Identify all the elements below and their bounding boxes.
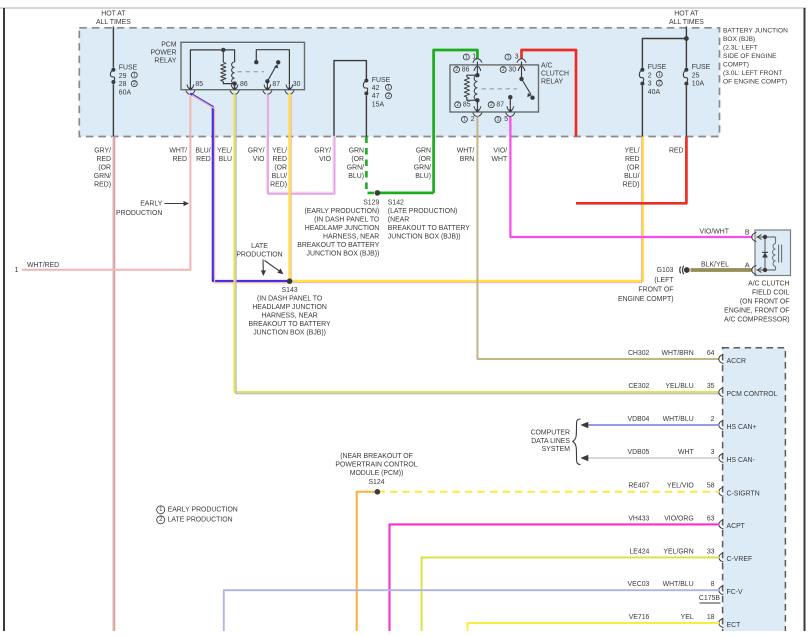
- svg-text:86: 86: [462, 66, 470, 73]
- EARLY PRODUCTION note with arrow: [116, 200, 189, 217]
- svg-text:ENGINE, FRONT OF: ENGINE, FRONT OF: [724, 308, 789, 315]
- svg-text:WHT: WHT: [678, 449, 694, 456]
- svg-text:BLU): BLU): [415, 173, 431, 180]
- svg-text:ACPT: ACPT: [727, 523, 746, 530]
- svg-text:LATE: LATE: [251, 243, 268, 250]
- connector arc at PCM pin 3: [719, 453, 724, 462]
- svg-text:58: 58: [707, 483, 715, 490]
- pin arrow 85: [187, 82, 194, 90]
- VIO/WHT label: [700, 229, 730, 236]
- svg-text:BLU): BLU): [348, 173, 364, 180]
- svg-text:VH433: VH433: [628, 515, 649, 522]
- fuse 2/3 40A: [639, 68, 644, 86]
- svg-text:HOT AT: HOT AT: [101, 11, 126, 18]
- node: A/C relay coil top: [475, 73, 479, 77]
- connector arc at PCM pin 2: [719, 420, 724, 429]
- wire HS CAN+ with arrow: [580, 422, 719, 429]
- pin arrow 30: [286, 82, 293, 90]
- svg-text:RED: RED: [172, 156, 187, 163]
- svg-text:2: 2: [711, 416, 715, 423]
- wire: GRY/VIO return into BJB up to fuse 42/47: [334, 61, 366, 137]
- svg-text:FC-V: FC-V: [727, 589, 743, 596]
- svg-text:(OR: (OR: [627, 165, 640, 172]
- svg-text:RED: RED: [625, 156, 640, 163]
- wire YEL/RED pin 30 down to S143: [289, 93, 291, 281]
- svg-text:YEL/: YEL/: [625, 148, 640, 155]
- connector arc at PCM pin 63: [719, 520, 724, 529]
- svg-text:15A: 15A: [372, 101, 385, 108]
- svg-text:GRY/: GRY/: [248, 148, 265, 155]
- svg-text:ACCR: ACCR: [727, 358, 747, 365]
- wire: junction branch to fuse 2/3: [642, 39, 686, 68]
- wire label BLU/RED: [195, 148, 210, 164]
- svg-text:RED): RED): [94, 182, 111, 189]
- svg-text:GRN: GRN: [416, 148, 431, 155]
- connector arcs under PCM power relay pins: [186, 90, 294, 94]
- svg-text:63: 63: [707, 515, 715, 522]
- node: A/C switch pivot: [519, 77, 523, 81]
- svg-text:JUNCTION BOX (BJB)): JUNCTION BOX (BJB)): [388, 233, 461, 240]
- A/C clutch field coil box: [755, 230, 791, 276]
- connector arc at PCM pin 35: [719, 388, 724, 397]
- svg-text:18: 18: [707, 614, 715, 621]
- svg-text:1: 1: [465, 54, 468, 60]
- svg-text:BLU/: BLU/: [195, 148, 210, 155]
- svg-text:87: 87: [272, 81, 280, 88]
- wire: relay pin 85 riser to coil top: [190, 50, 234, 84]
- svg-text:A/C CLUTCH: A/C CLUTCH: [748, 281, 789, 288]
- svg-text:2: 2: [648, 72, 652, 79]
- relay box: PCM POWER RELAY: [181, 42, 305, 89]
- A/C CLUTCH RELAY label: [541, 62, 569, 85]
- svg-text:GRY/: GRY/: [94, 148, 111, 155]
- wire label GRY/RED (OR GRN/RED): [94, 148, 111, 189]
- svg-text:(IN DASH PANEL TO: (IN DASH PANEL TO: [314, 216, 380, 223]
- computer data lines brace: [573, 419, 581, 465]
- svg-text:85: 85: [463, 101, 471, 108]
- node S129 splice: [375, 190, 381, 196]
- pin C-SIGRTN label row (RE407 YEL/VIO 58): [628, 483, 714, 490]
- svg-text:2: 2: [502, 67, 505, 73]
- svg-text:JUNCTION BOX (BJB)): JUNCTION BOX (BJB)): [307, 250, 380, 257]
- svg-text:86: 86: [240, 81, 248, 88]
- svg-text:LE424: LE424: [629, 548, 649, 555]
- pin label (1)5: [495, 116, 508, 123]
- field coil diode: [762, 252, 768, 257]
- svg-text:3: 3: [648, 81, 652, 88]
- svg-text:S143: S143: [282, 287, 298, 294]
- pin arrow 86: [231, 82, 238, 90]
- PCM module dashed box: [723, 348, 786, 636]
- wire: RED into relay pin 3: [522, 50, 577, 137]
- svg-text:GRN/: GRN/: [94, 173, 111, 180]
- svg-text:RELAY: RELAY: [154, 58, 176, 65]
- wire WHT/RED (early production): [22, 94, 191, 270]
- svg-text:BLU/: BLU/: [272, 173, 287, 180]
- svg-text:1: 1: [15, 267, 19, 274]
- mechanical link dashed line (A/C relay): [482, 88, 518, 90]
- svg-text:RED): RED): [623, 182, 640, 189]
- svg-text:COMPT): COMPT): [723, 62, 749, 69]
- svg-text:2: 2: [387, 93, 390, 99]
- G103 label: [618, 267, 674, 303]
- wire: GRN into relay pin 1: [434, 50, 478, 193]
- svg-text:3: 3: [515, 54, 519, 61]
- svg-text:(OR: (OR: [98, 165, 111, 172]
- battery junction box (BJB) dashed enclosure: [79, 28, 719, 137]
- svg-text:C175B: C175B: [699, 595, 720, 602]
- svg-text:BRN: BRN: [460, 156, 475, 163]
- wire GRY/VIO U-path pin 87 to BJB return: [267, 93, 335, 194]
- pin label (2)85: [455, 101, 471, 108]
- svg-text:SYSTEM: SYSTEM: [542, 446, 571, 453]
- wire: junction down to resistor: [222, 50, 224, 62]
- connector arc above pin 3: [517, 59, 526, 67]
- wire label WHT/BRN: [457, 148, 475, 164]
- svg-text:GRN: GRN: [349, 148, 364, 155]
- wire HS CAN- with arrow: [580, 455, 719, 462]
- svg-text:CH302: CH302: [628, 350, 650, 357]
- pin name ACPT: [727, 523, 746, 530]
- svg-text:RE407: RE407: [628, 483, 649, 490]
- svg-text:VIO: VIO: [319, 156, 332, 163]
- node: switch fixed contact: [254, 60, 258, 64]
- switch armature arm (A/C relay): [522, 79, 532, 97]
- legend (1) EARLY PRODUCTION (2) LATE PRODUCTION: [157, 506, 238, 524]
- connector arc at PCM pin 58: [719, 487, 724, 496]
- svg-text:25: 25: [692, 72, 700, 79]
- fuse 25 10A: [683, 68, 688, 86]
- svg-text:RED: RED: [669, 148, 684, 155]
- pin number 87: [272, 81, 280, 88]
- S143 splice label: [249, 287, 331, 337]
- wire BLU/RED (late production): [190, 93, 290, 282]
- wire: fuse 2/3 output inside BJB: [641, 86, 643, 137]
- svg-text:YEL/BLU: YEL/BLU: [665, 383, 693, 390]
- svg-text:64: 64: [707, 350, 715, 357]
- svg-text:PRODUCTION: PRODUCTION: [116, 210, 162, 217]
- node S124 splice: [375, 489, 381, 495]
- svg-text:G103: G103: [657, 267, 674, 274]
- svg-text:47: 47: [372, 93, 380, 100]
- wire VIO/ORG ACPT: [390, 524, 720, 631]
- connector arc at PCM pin 64: [719, 354, 724, 363]
- pin label (2)87: [488, 101, 504, 108]
- svg-text:28: 28: [119, 81, 127, 88]
- svg-text:1: 1: [463, 117, 466, 123]
- pin letter A: [745, 263, 750, 270]
- svg-text:GRY/: GRY/: [314, 148, 331, 155]
- BLK/YEL label: [701, 262, 729, 269]
- pin name ECT: [727, 622, 742, 629]
- svg-text:GRN/: GRN/: [414, 165, 431, 172]
- wire: fuse 42/47 output inside BJB: [365, 96, 367, 137]
- svg-text:ECT: ECT: [727, 622, 742, 629]
- svg-text:YEL/GRN: YEL/GRN: [663, 548, 693, 555]
- svg-text:BLU: BLU: [219, 156, 232, 163]
- wire GRN solid to S142 riser: [377, 192, 433, 195]
- svg-text:FRONT OF: FRONT OF: [638, 286, 673, 293]
- node: feed junction: [684, 36, 689, 41]
- wire label GRN (OR GRN/BLU) (early): [347, 148, 364, 181]
- wire YEL/VIO dashed C-SIGRTN: [377, 491, 719, 493]
- node: field coil pin A junction: [763, 268, 767, 272]
- svg-text:VDB04: VDB04: [628, 416, 650, 423]
- svg-text:VIO/: VIO/: [493, 148, 507, 155]
- svg-text:VE716: VE716: [629, 614, 650, 621]
- svg-text:29: 29: [119, 73, 127, 80]
- svg-text:(2.3L: LEFT: (2.3L: LEFT: [723, 45, 758, 52]
- wire label GRY/VIO (return): [314, 148, 331, 164]
- pin PCM CONTROL label row (CE302 YEL/BLU 35): [628, 383, 714, 390]
- S142 splice label: [388, 199, 470, 240]
- connector arc at PCM pin 8: [719, 586, 724, 595]
- svg-text:1: 1: [497, 117, 500, 123]
- pin arrow 87: [264, 82, 271, 90]
- pin name C-SIGRTN: [727, 491, 760, 498]
- svg-text:2: 2: [490, 102, 493, 108]
- svg-text:YEL/: YEL/: [217, 148, 232, 155]
- fuse 25 label: [692, 64, 711, 88]
- fuse 42/47 15A: [363, 79, 368, 96]
- field coil pin chevrons: [758, 235, 762, 273]
- wire GRY/RED vertical to page bottom: [113, 137, 115, 632]
- C175B connector label: [699, 595, 721, 603]
- svg-text:JUNCTION BOX (BJB)): JUNCTION BOX (BJB)): [253, 330, 326, 337]
- svg-text:(OR: (OR: [351, 156, 364, 163]
- S129 splice label: [297, 199, 380, 257]
- page frame left border: [3, 8, 5, 631]
- wire: fuse 29/28 output inside BJB: [112, 84, 114, 136]
- wire: coil top to resistor: [467, 75, 478, 77]
- wire label YEL/RED (OR BLU/RED) (pin 30): [270, 148, 287, 189]
- field coil internal wiring: [757, 237, 776, 270]
- pin name PCM CONTROL: [727, 391, 778, 398]
- svg-text:(EARLY PRODUCTION): (EARLY PRODUCTION): [305, 208, 380, 215]
- svg-text:EARLY PRODUCTION: EARLY PRODUCTION: [168, 506, 238, 513]
- svg-text:1: 1: [133, 72, 136, 78]
- svg-text:WHT/BRN: WHT/BRN: [662, 350, 694, 357]
- wire WHT/BLU FC-V: [224, 590, 719, 631]
- svg-text:2: 2: [456, 102, 459, 108]
- node: coil top junction: [221, 48, 225, 52]
- svg-text:40A: 40A: [648, 89, 661, 96]
- svg-text:VDB05: VDB05: [628, 449, 650, 456]
- svg-text:2: 2: [455, 67, 458, 73]
- svg-text:SIDE OF ENGINE: SIDE OF ENGINE: [723, 53, 777, 60]
- svg-text:2: 2: [471, 116, 475, 123]
- field coil winding: [773, 244, 776, 267]
- svg-text:BREAKOUT TO BATTERY: BREAKOUT TO BATTERY: [388, 225, 470, 232]
- pin label (1)3: [505, 54, 519, 61]
- pin HS CAN+ label row (VDB04 WHT/BLU 2): [628, 416, 715, 423]
- fuse 29/28 label: [119, 65, 138, 97]
- svg-text:HOT AT: HOT AT: [674, 11, 699, 18]
- svg-text:87: 87: [496, 101, 504, 108]
- svg-text:OF ENGINE COMPT): OF ENGINE COMPT): [723, 79, 787, 86]
- svg-text:MODULE (PCM)): MODULE (PCM)): [350, 470, 404, 477]
- svg-text:10A: 10A: [692, 81, 705, 88]
- wire: pivot to pin 87: [266, 81, 268, 84]
- svg-text:(ON FRONT OF: (ON FRONT OF: [740, 299, 790, 306]
- wire YEL/BLU pin 86 down to PCM CONTROL row: [234, 93, 720, 393]
- pin name ACCR: [727, 358, 747, 365]
- svg-text:60A: 60A: [119, 89, 132, 96]
- svg-text:FUSE: FUSE: [119, 65, 138, 72]
- svg-text:HARNESS, NEAR: HARNESS, NEAR: [323, 233, 379, 240]
- svg-text:85: 85: [195, 81, 203, 88]
- svg-text:BREAKOUT TO BATTERY: BREAKOUT TO BATTERY: [249, 321, 331, 328]
- wire orange continuation at S124: [357, 492, 378, 631]
- svg-text:HARNESS, NEAR: HARNESS, NEAR: [261, 313, 317, 320]
- wire YEL/GRN C-VREF: [422, 557, 719, 631]
- fuse 2/3 label: [648, 64, 667, 96]
- svg-text:POWERTRAIN CONTROL: POWERTRAIN CONTROL: [335, 462, 417, 469]
- svg-text:(NEAR BREAKOUT OF: (NEAR BREAKOUT OF: [340, 453, 413, 460]
- svg-text:33: 33: [707, 548, 715, 555]
- connector 1 label WHT/RED: [15, 262, 60, 274]
- fuse 42/47 label: [372, 77, 392, 109]
- node: A/C switch throw stop: [530, 96, 534, 100]
- svg-text:RED: RED: [96, 156, 111, 163]
- resistor inside PCM power relay: [221, 62, 226, 81]
- mechanical link dashed line (PCM power relay): [238, 71, 265, 73]
- svg-text:ENGINE COMPT): ENGINE COMPT): [618, 296, 674, 303]
- page frame right border: [804, 8, 806, 631]
- wire label GRY/VIO (pin 87): [248, 148, 265, 164]
- connector arcs below A/C relay pins 2 and 5: [473, 113, 515, 117]
- svg-text:VIO/WHT: VIO/WHT: [700, 229, 730, 236]
- wire YEL/RED S143 to fuse 2/3: [290, 137, 643, 283]
- svg-text:S124: S124: [368, 479, 384, 486]
- svg-text:S142: S142: [388, 199, 404, 206]
- pin label (2)30: [500, 66, 516, 73]
- svg-text:BATTERY JUNCTION: BATTERY JUNCTION: [723, 28, 788, 35]
- svg-text:VEC03: VEC03: [628, 581, 650, 588]
- svg-text:COMPUTER: COMPUTER: [531, 430, 570, 437]
- svg-text:YEL: YEL: [681, 614, 694, 621]
- svg-text:RELAY: RELAY: [541, 79, 563, 86]
- node: field coil pin B junction: [763, 235, 767, 239]
- svg-text:WHT: WHT: [491, 156, 507, 163]
- connector arc above pin 1: [473, 59, 482, 67]
- svg-text:HS CAN-: HS CAN-: [727, 457, 755, 464]
- connector arc at PCM pin 18: [719, 618, 724, 627]
- ground G103 symbol: [680, 266, 690, 274]
- relay coil (PCM power relay): [232, 62, 235, 84]
- svg-text:(LEFT: (LEFT: [654, 277, 674, 284]
- svg-text:POWER: POWER: [150, 50, 176, 57]
- svg-text:(LATE PRODUCTION): (LATE PRODUCTION): [388, 208, 458, 215]
- wire BLK/YEL ground to field coil pin A: [691, 269, 753, 272]
- pin 86 up-arrow (A/C relay): [474, 66, 481, 75]
- svg-text:BOX (BJB): BOX (BJB): [723, 36, 755, 43]
- connector arcs at field coil pins B and A: [752, 232, 757, 274]
- svg-text:A: A: [745, 263, 750, 270]
- svg-text:CLUTCH: CLUTCH: [541, 71, 569, 78]
- svg-text:1: 1: [387, 85, 390, 91]
- node S143 splice: [287, 278, 293, 284]
- pin 30 up-arrow (A/C relay): [518, 66, 525, 79]
- pin HS CAN- label row (VDB05 WHT 3): [628, 449, 715, 456]
- svg-text:CE302: CE302: [628, 383, 649, 390]
- pin 87 down-arrow (A/C relay): [507, 97, 514, 112]
- wire: fuse 25 output inside BJB: [685, 86, 687, 137]
- svg-text:A/C: A/C: [541, 62, 553, 69]
- svg-text:FUSE: FUSE: [692, 64, 711, 71]
- svg-text:S129: S129: [363, 199, 379, 206]
- wire label WHT/RED: [169, 148, 187, 164]
- LATE PRODUCTION note with arrows: [236, 243, 283, 276]
- pin ACPT label row (VH433 VIO/ORG 63): [628, 515, 714, 522]
- switch armature arm (PCM power relay): [267, 64, 278, 81]
- node HOT AT ALL TIMES (left): [96, 11, 131, 26]
- svg-text:35: 35: [707, 383, 715, 390]
- svg-text:DATA LINES: DATA LINES: [531, 438, 570, 445]
- svg-text:VIO: VIO: [253, 156, 266, 163]
- wire: right feed down to junction: [685, 27, 687, 68]
- pin 85 down-arrow (A/C relay): [474, 100, 481, 112]
- pin ECT label row (VE716 YEL 18): [629, 614, 715, 621]
- svg-text:RED: RED: [272, 156, 287, 163]
- wire: left feed from hot-at-all-times to fuse 29/28: [112, 27, 114, 68]
- pin number 30: [293, 81, 301, 88]
- wire label RED: [669, 148, 684, 155]
- wire label GRN (OR GRN/BLU) (late): [414, 148, 431, 181]
- pin label (2)86: [454, 66, 470, 73]
- PCM POWER RELAY label: [150, 42, 176, 65]
- wire WHT/BRN pin 2 down to ACCR row: [477, 116, 719, 359]
- svg-text:(OR: (OR: [274, 165, 287, 172]
- wire label YEL/BLU: [217, 148, 232, 164]
- node: A/C pin 87 contact: [508, 95, 512, 99]
- svg-text:(IN DASH PANEL TO: (IN DASH PANEL TO: [257, 296, 323, 303]
- wire VIO/WHT pin 5 to field coil pin B: [510, 116, 752, 237]
- wire GRN dashed (early production) from fuse 42/47: [366, 137, 377, 193]
- pin label (1)2: [461, 116, 474, 123]
- svg-text:1: 1: [472, 54, 476, 61]
- pin letter B: [745, 230, 750, 237]
- svg-text:PCM: PCM: [161, 42, 177, 49]
- svg-text:HEADLAMP JUNCTION: HEADLAMP JUNCTION: [252, 304, 327, 311]
- node: A/C relay coil bottom: [475, 98, 479, 102]
- page frame top line: [0, 7, 806, 9]
- svg-text:2: 2: [658, 80, 661, 86]
- pin number 85: [195, 81, 203, 88]
- svg-text:GRN/: GRN/: [347, 165, 364, 172]
- svg-text:30: 30: [508, 66, 516, 73]
- relay coil (A/C clutch relay): [474, 75, 477, 100]
- wire: resistor bottom to coil bottom node: [467, 97, 478, 100]
- node: switch throw stop: [276, 60, 280, 64]
- svg-text:42: 42: [372, 85, 380, 92]
- wire YEL ECT: [468, 623, 720, 631]
- wire RED fuse 25 to A/C relay pin 3 (lower run): [576, 137, 686, 204]
- pin name HS CAN-: [727, 457, 755, 464]
- svg-text:BLU/: BLU/: [624, 173, 639, 180]
- svg-text:1: 1: [507, 54, 510, 60]
- pin name HS CAN+: [727, 424, 757, 431]
- pin ACCR label row (CH302 WHT/BRN 64): [628, 350, 715, 357]
- svg-text:YEL/VIO: YEL/VIO: [667, 483, 694, 490]
- wire: resistor bottom to pin 86 node: [223, 81, 234, 83]
- pin FC-V label row (VEC03 WHT/BLU 8): [628, 581, 715, 588]
- node: coil bottom junction (pin 86): [232, 81, 236, 85]
- svg-text:A/C COMPRESSOR): A/C COMPRESSOR): [724, 317, 789, 324]
- svg-text:B: B: [745, 230, 750, 237]
- svg-text:RED: RED: [196, 156, 211, 163]
- pin label (1)1: [463, 54, 476, 61]
